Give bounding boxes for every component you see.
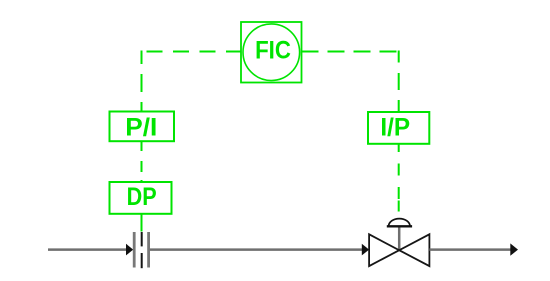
signal line FIC to I/P horizontal: [302, 51, 399, 53]
flow arrow 1: [126, 244, 133, 256]
valve actuator dome baseline: [387, 225, 412, 227]
signal line DP to orifice: [141, 214, 143, 232]
valve actuator dome arc: [389, 219, 410, 227]
instrument FIC square: [241, 22, 302, 83]
pipe left segment: [48, 248, 128, 251]
valve body left triangle: [369, 234, 399, 266]
signal line FIC to P/I vertical: [141, 51, 143, 112]
svg-text:I/P: I/P: [380, 115, 410, 142]
svg-text:P/I: P/I: [125, 115, 157, 142]
svg-text:FIC: FIC: [255, 38, 291, 65]
pipe middle segment: [150, 248, 367, 251]
valve stem: [398, 227, 401, 251]
instrument box I/P: [368, 112, 429, 144]
svg-text:DP: DP: [127, 184, 157, 211]
orifice plate upper segment: [141, 232, 143, 246]
orifice flange right bar: [147, 232, 150, 268]
flow arrow 2: [362, 244, 369, 256]
signal line FIC to I/P vertical: [398, 51, 400, 113]
signal line FIC to P/I horizontal: [147, 51, 242, 53]
signal line I/P to valve: [398, 144, 400, 213]
instrument box DP: [110, 182, 172, 214]
instrument FIC circle: [243, 24, 300, 81]
flow arrow 3: [510, 243, 518, 255]
pipe right segment: [429, 248, 512, 251]
valve body right triangle: [399, 234, 429, 266]
instrument box P/I: [110, 112, 175, 142]
orifice plate lower segment: [141, 253, 143, 268]
signal line P/I to DP: [141, 141, 143, 182]
orifice flange left bar: [133, 232, 136, 268]
